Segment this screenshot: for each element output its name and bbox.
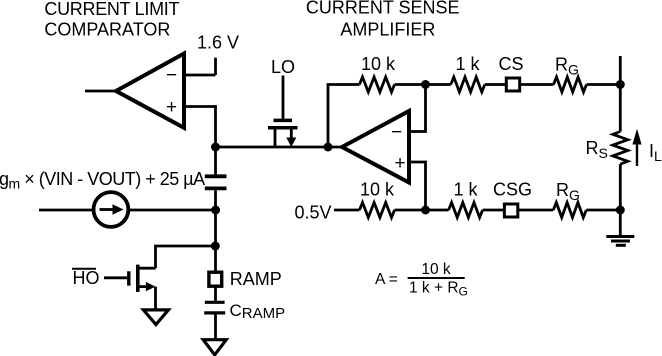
svg-text:CRAMP: CRAMP <box>230 301 286 322</box>
resistor RS <box>613 132 628 165</box>
node row1 left junction <box>421 80 430 89</box>
svg-text:RAMP: RAMP <box>230 269 282 289</box>
svg-text:1 k: 1 k <box>453 180 478 200</box>
node B junction <box>211 206 220 215</box>
resistor 1k row2 <box>449 203 483 218</box>
svg-text:CURRENT SENSE: CURRENT SENSE <box>306 0 460 18</box>
current source wire left <box>39 209 94 212</box>
wire branch to HO switch <box>156 246 216 268</box>
pin CSG pad <box>504 204 517 217</box>
wire opamp non-inverting input <box>409 162 426 210</box>
wire CS to RG row1 <box>520 83 554 86</box>
ground triangle CRAMP <box>203 340 226 355</box>
wire right rail top <box>619 56 622 132</box>
svg-text:10 k: 10 k <box>361 54 396 74</box>
wire 0.5V to 10k row2 <box>334 209 360 212</box>
wire RG to right rail row2 <box>586 209 620 212</box>
wire CRAMP to ground <box>214 315 217 340</box>
wire 10k to 1k row1 <box>395 83 451 86</box>
resistor 10k row1 <box>360 77 395 92</box>
svg-text:gm × (VIN - VOUT) + 25 µA: gm × (VIN - VOUT) + 25 µA <box>0 169 205 192</box>
node right rail row1 junction <box>616 80 625 89</box>
svg-text:HO: HO <box>73 268 100 288</box>
svg-text:10 k: 10 k <box>421 261 451 278</box>
capacitor series mid <box>205 176 227 188</box>
svg-text:1.6 V: 1.6 V <box>197 33 239 53</box>
svg-text:A =: A = <box>375 271 398 288</box>
resistor 1k row1 <box>451 77 485 92</box>
resistor RG row1 <box>554 77 587 92</box>
wire 10k to 1k row2 <box>395 209 449 212</box>
current source I1 <box>94 192 129 227</box>
node C junction <box>211 242 220 251</box>
ground earth right <box>606 237 634 246</box>
arrow IL <box>632 129 662 166</box>
comparator U1 <box>116 54 184 128</box>
svg-text:−: − <box>391 122 402 143</box>
wire node A to opamp <box>216 146 343 149</box>
node A junction <box>211 143 220 152</box>
formula A = 10k / (1k + RG) <box>375 261 468 299</box>
svg-text:LO: LO <box>271 57 295 77</box>
ground triangle HO <box>143 310 168 325</box>
title CURRENT SENSE AMPLIFIER <box>306 0 460 39</box>
svg-text:CSG: CSG <box>493 180 532 200</box>
node row2 left junction <box>421 206 430 215</box>
svg-text:−: − <box>166 65 177 86</box>
wire 1.6V stub <box>214 58 217 75</box>
wire RG to right rail row1 <box>587 83 621 86</box>
wire 1k to CSG <box>483 209 505 212</box>
node opamp output junction <box>324 143 333 152</box>
wire comparator output <box>85 90 116 93</box>
svg-text:AMPLIFIER: AMPLIFIER <box>340 19 435 39</box>
svg-text:10 k: 10 k <box>360 180 395 200</box>
resistor 10k row2 <box>360 203 395 218</box>
svg-text:1 k: 1 k <box>455 54 480 74</box>
wire comparator inverting input <box>184 74 216 77</box>
wire LO gate <box>282 76 285 119</box>
svg-text:0.5V: 0.5V <box>294 203 331 223</box>
title CURRENT LIMIT COMPARATOR <box>44 0 179 40</box>
wire CSG to RG row2 <box>518 209 554 212</box>
wire comparator non-inverting input <box>184 107 216 148</box>
resistor RG row2 <box>553 203 586 218</box>
wire node A down to capacitor <box>214 147 217 174</box>
svg-text:CURRENT LIMIT: CURRENT LIMIT <box>44 0 179 19</box>
pin CS pad <box>506 78 519 91</box>
svg-text:+: + <box>395 153 406 174</box>
label HO with overline <box>72 268 100 288</box>
transistor HO switch <box>104 265 156 310</box>
transistor LO pass switch <box>268 120 298 147</box>
capacitor CRAMP <box>204 301 285 322</box>
svg-text:+: + <box>166 97 177 118</box>
wire RAMP to CRAMP <box>214 287 217 301</box>
op-amp U2 <box>342 111 409 183</box>
wire opamp feedback up <box>328 85 360 148</box>
node right rail row2 junction <box>616 206 625 215</box>
wire right rail mid <box>619 164 622 236</box>
wire capacitor down to RAMP <box>214 190 217 272</box>
wire 1k to CS <box>485 83 507 86</box>
pin RAMP pad <box>209 272 222 286</box>
wire opamp inverting input <box>409 85 426 132</box>
svg-text:CS: CS <box>498 54 523 74</box>
svg-text:COMPARATOR: COMPARATOR <box>44 20 170 40</box>
wire current source to node B <box>128 209 215 212</box>
